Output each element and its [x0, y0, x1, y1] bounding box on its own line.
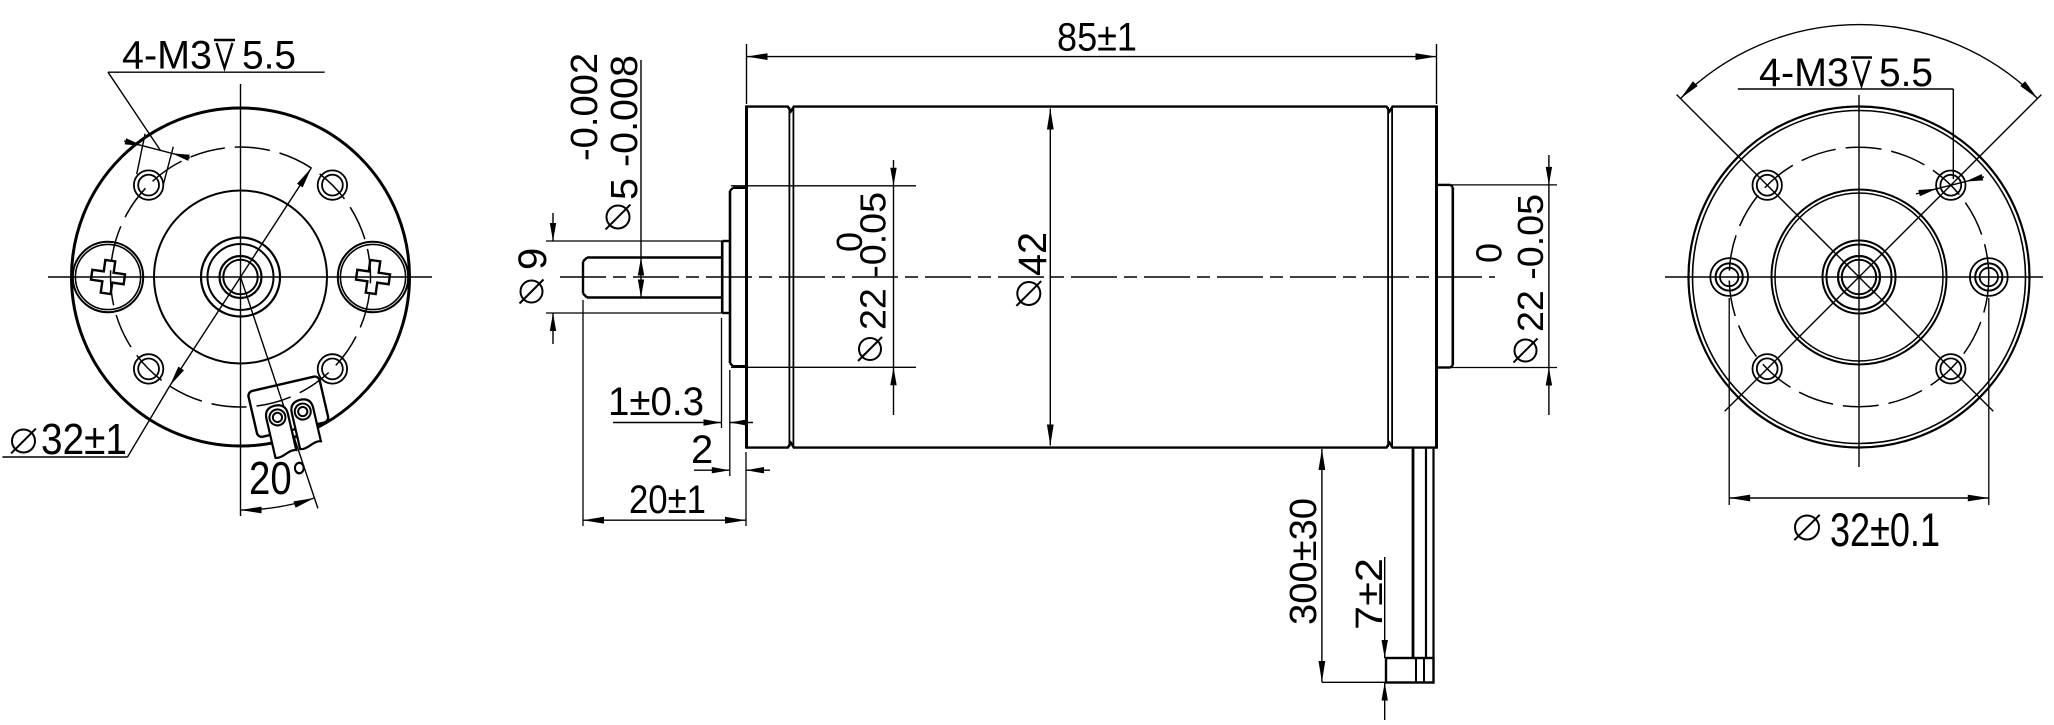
svg-text:22 -0.05: 22 -0.05: [1510, 194, 1551, 332]
body-rearcap joint lines: [1388, 107, 1392, 447]
rear view boss circle d22: [1772, 190, 1947, 365]
rear view diagonal 135-315: [1677, 95, 1994, 412]
dim 85 arrows: [747, 53, 1437, 60]
front view shaft ring: [220, 256, 262, 298]
dim d9 ext lines: [546, 241, 722, 313]
front view hub bearing ring outer: [201, 238, 280, 317]
body bottom edge: [747, 443, 1437, 448]
front label 20deg: [249, 452, 307, 504]
svg-text:9: 9: [511, 248, 555, 270]
dim d22f arrows: [890, 168, 896, 385]
dim d5 arrows: [638, 258, 644, 298]
dim d22f line: [893, 160, 895, 415]
rear M3 dim line: [1916, 177, 1984, 194]
dim 20 ext lines: [583, 300, 746, 526]
front hole top-left (M3): [134, 170, 163, 199]
dim 300 ext line: [1322, 681, 1386, 683]
dim d32r line: [1729, 497, 1989, 499]
label d22r main: [1510, 194, 1551, 332]
cable end sleeve: [1386, 658, 1434, 683]
front dia32 arrow upper: [297, 168, 311, 187]
rear hole bottom-left (M3): [1753, 354, 1782, 383]
label d22f main: [853, 192, 894, 330]
dim 7 arrows: [1382, 640, 1388, 701]
front hole bottom-right (M3): [318, 354, 347, 383]
front dia32 leader: [128, 386, 170, 457]
dim d32r ext lines: [1729, 298, 1989, 505]
dim d22r arrows: [1546, 167, 1552, 386]
label d32r: [1794, 503, 1940, 556]
label d5 symbol: [606, 205, 631, 230]
front M3 tangent line left: [137, 134, 145, 175]
dim 7 line: [1384, 557, 1386, 720]
front view vertical centerline: [240, 84, 242, 516]
rear view hub bearing ring: [1823, 241, 1896, 314]
label d5 main: [604, 55, 646, 200]
svg-text:4-M3: 4-M3: [122, 34, 212, 78]
dim 85 line: [747, 56, 1437, 58]
rear view diagonal 45-225: [1725, 95, 2042, 412]
dim 2 line: [694, 469, 770, 471]
flange front face: [745, 105, 748, 448]
rear label leader: [1952, 89, 1954, 179]
front dia32 arrow lower: [170, 367, 184, 386]
front pilot boss d22: [730, 188, 747, 366]
front bearing boss d9: [722, 241, 730, 313]
label d22f upper tol: [829, 232, 870, 252]
dim 20 text: [629, 478, 706, 522]
label d5 tolerance upper: [564, 53, 606, 161]
dim d9 line: [552, 213, 554, 344]
svg-text:22 -0.05: 22 -0.05: [853, 192, 894, 330]
cable: [1413, 448, 1434, 658]
front 20deg arc: [241, 498, 315, 510]
dim 300 line: [1321, 449, 1323, 682]
body top edge: [747, 107, 1437, 112]
shaft outline d5: [583, 258, 722, 298]
svg-text:1±0.3: 1±0.3: [608, 380, 704, 424]
front 20deg arc arrow left: [241, 507, 262, 514]
front view horizontal centerline: [48, 276, 432, 278]
dim 300 text: [1283, 498, 1325, 625]
front view outer flange circle: [72, 108, 410, 446]
svg-text:7±2: 7±2: [1349, 558, 1391, 630]
svg-text:5.5: 5.5: [242, 34, 296, 78]
dim d42 line: [1049, 109, 1051, 446]
dim d5 line: [640, 60, 642, 298]
rear M3 dim arrows: [1918, 174, 1983, 196]
label d22r upper tol: [1469, 243, 1510, 263]
front M3 dim line: [124, 141, 190, 158]
rear arc arrow right: [2020, 81, 2037, 98]
front label dia32+-1: [11, 415, 127, 464]
front hole top-right (M3): [318, 170, 347, 199]
label d9: [511, 248, 555, 304]
dim 85 text: [1057, 16, 1137, 60]
label d22r symbol: [1514, 339, 1538, 363]
rear hole bottom-right (M3): [1936, 354, 1965, 383]
rear hole right (through): [1970, 258, 2008, 296]
svg-text:32±0.1: 32±0.1: [1830, 503, 1940, 556]
dim 20 arrows: [583, 517, 746, 524]
dim 20 line: [583, 519, 746, 521]
rear label underline: [1738, 88, 1954, 90]
dim d22r line: [1548, 155, 1550, 415]
dim 1 arrows: [704, 419, 748, 425]
side view centerline: [560, 276, 1495, 278]
rear view shaft ring: [1838, 256, 1880, 298]
front label 4-M3 depth 5.5: [122, 34, 296, 78]
front view bolt circle d32 (dashed): [111, 147, 371, 407]
rear face: [1435, 105, 1438, 448]
rear hole top-left (M3): [1753, 171, 1782, 200]
front label leader: [108, 72, 161, 150]
rear boss d22: [1437, 185, 1453, 368]
flange-body joint lines: [789, 107, 793, 447]
dim 7 text: [1349, 558, 1391, 630]
dim d42 arrows: [1047, 109, 1054, 446]
dim d9 arrows: [550, 223, 556, 331]
label d42: [1011, 232, 1055, 306]
rear arc arrow left: [1681, 81, 1698, 98]
terminal connector block: [247, 376, 334, 462]
rear view bolt circle d32 (dashed): [1729, 147, 1989, 407]
front dia32 diameter line: [170, 168, 312, 386]
svg-text:300±30: 300±30: [1283, 498, 1325, 625]
rear view outer circle: [1689, 107, 2030, 448]
screw left (phillips): [73, 242, 143, 312]
svg-text:5 -0.008: 5 -0.008: [604, 55, 646, 200]
dim 2 text: [691, 428, 713, 472]
front 20deg radial line: [241, 277, 318, 508]
front M3 dim arrow right: [172, 153, 190, 161]
svg-text:85±1: 85±1: [1057, 16, 1137, 60]
dim 1 line: [613, 422, 753, 424]
dim 85 ext lines: [747, 44, 1437, 104]
front view pilot boss circle d22: [154, 191, 327, 364]
svg-text:20°: 20°: [249, 452, 307, 504]
svg-text:20±1: 20±1: [629, 478, 706, 522]
svg-text:2: 2: [691, 428, 713, 472]
dim 1 ext lines: [722, 318, 730, 476]
svg-text:-0.002: -0.002: [564, 53, 606, 161]
rear angular arc: [1681, 25, 2038, 99]
svg-text:0: 0: [1469, 243, 1510, 263]
svg-text:42: 42: [1011, 232, 1055, 276]
rear label 4-M3 depth 5.5: [1759, 51, 1933, 95]
front M3 tangent line right: [163, 147, 173, 185]
dim d32r arrows: [1729, 495, 1989, 502]
rear hole left (through): [1710, 258, 1748, 296]
front M3 dim arrow left: [125, 138, 143, 146]
screw right (phillips): [338, 242, 408, 312]
rear view vertical centerline: [1858, 95, 1860, 467]
front 20deg arc arrow right: [293, 498, 314, 508]
front hole bottom-left (M3): [134, 354, 163, 383]
dim 300 arrows: [1319, 449, 1326, 682]
dim d22f ext lines: [731, 186, 916, 367]
front dia32 underline: [2, 456, 127, 458]
front label underline: [108, 71, 325, 73]
dim 1 text: [608, 380, 704, 424]
dim 2 arrows: [712, 467, 764, 473]
rear view horizontal centerline: [1665, 276, 2043, 278]
rear hole top-right (M3): [1936, 171, 1965, 200]
label d22f symbol: [858, 337, 882, 361]
dim d22r ext lines: [1437, 185, 1557, 368]
